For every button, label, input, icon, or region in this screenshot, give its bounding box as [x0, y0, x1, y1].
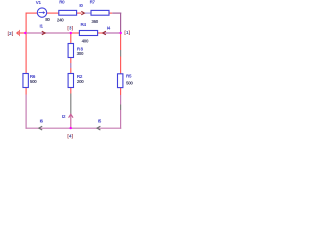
wire left vertical red stub below R6 — [25, 88, 27, 95]
wire right vertical gray segment — [120, 105, 122, 111]
resistor R5 — [118, 74, 123, 88]
svg-text:[4]: [4] — [67, 133, 73, 138]
node 2 junction dot — [24, 32, 26, 34]
node 4 junction dot — [70, 127, 72, 129]
node 3 junction dot — [70, 32, 72, 34]
wire center vertical magenta shaft of I2 — [70, 115, 72, 129]
wire red down to R5 — [120, 57, 122, 74]
wire right vertical gray patch upper — [120, 50, 122, 57]
current arrow I5 — [97, 126, 100, 130]
wire top R0 to I0 arrow — [77, 12, 81, 14]
resistor R0 — [59, 10, 77, 15]
wire bottom rail — [26, 127, 122, 129]
svg-text:R4: R4 — [81, 22, 87, 27]
wire top between source and R0 — [47, 12, 59, 14]
current arrow I1 — [42, 31, 45, 35]
wire top I0 arrow to R7 (lavender) — [84, 12, 90, 14]
wire center vertical node3 to R8 — [70, 33, 72, 43]
wire right vertical red stub below R5 — [120, 88, 122, 95]
wire R8 bottom lead — [70, 58, 72, 63]
resistor R4 — [79, 31, 97, 36]
wire left vertical mauve lower — [25, 95, 27, 129]
wire R4 right lead — [98, 32, 103, 34]
svg-text:240: 240 — [57, 18, 64, 23]
resistor R7 — [91, 10, 109, 15]
source V1 — [37, 8, 46, 17]
svg-text:500: 500 — [126, 81, 133, 86]
current arrow I2 — [69, 114, 73, 118]
svg-text:[1]: [1] — [124, 30, 130, 35]
wire R2 top lead — [70, 68, 72, 73]
wire center violet tint segment — [70, 63, 72, 68]
svg-text:R7: R7 — [90, 0, 96, 5]
svg-text:360: 360 — [91, 19, 98, 24]
svg-text:400: 400 — [82, 39, 89, 44]
svg-text:V1: V1 — [36, 0, 42, 5]
svg-text:300: 300 — [77, 51, 84, 56]
wire left vertical upper — [25, 13, 27, 74]
wire terminal to node 2 — [20, 32, 26, 34]
svg-text:200: 200 — [77, 79, 84, 84]
svg-text:R0: R0 — [59, 0, 65, 4]
svg-text:[2]: [2] — [8, 31, 14, 36]
wire center vertical red stub below R2 — [70, 88, 72, 94]
wire right vertical plum corner to node 1 — [120, 13, 122, 34]
svg-text:R5: R5 — [126, 74, 132, 79]
node 1 junction dot — [120, 32, 122, 34]
current arrow I6 — [39, 126, 42, 130]
resistor R2 — [68, 74, 73, 88]
wire I4 arrow to node 1 (mauve) — [103, 32, 121, 34]
wire node 1 down red — [120, 33, 122, 50]
wire top right of R7 red stub — [110, 12, 113, 14]
resistor R8 — [68, 44, 73, 58]
wire top left horizontal — [26, 12, 37, 14]
wire node 2 to node 3 (I1 branch, mauve) — [25, 32, 71, 34]
current arrow I0 — [81, 11, 84, 14]
resistor R6 — [23, 74, 28, 88]
wire right vertical mauve segment — [120, 95, 122, 105]
terminal arrow at node 2 — [16, 30, 20, 36]
current arrow I4 — [103, 31, 106, 35]
svg-text:[3]: [3] — [67, 25, 73, 30]
wire center vertical gray segment — [70, 94, 72, 115]
wire main between node3 and R4 — [71, 32, 79, 34]
wire right vertical mauve lower — [120, 110, 122, 129]
wire top-right corner plum — [112, 12, 121, 14]
svg-text:500: 500 — [30, 79, 37, 84]
